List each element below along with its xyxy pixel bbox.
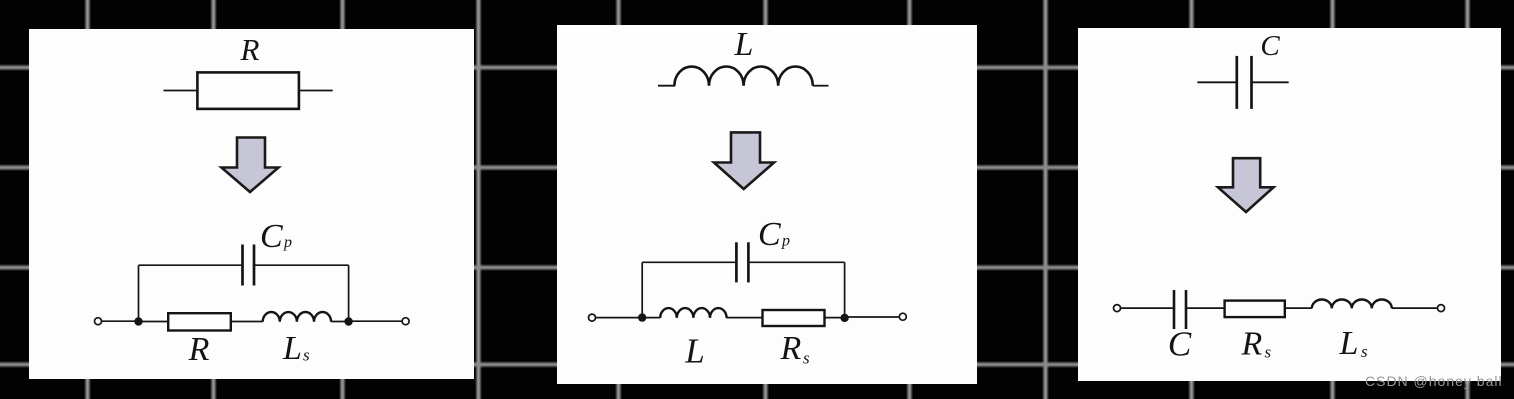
panel 2 : inductor parasitic model (557, 25, 977, 384)
wire inductor to resistor (726, 317, 762, 319)
svg-text:p: p (781, 233, 790, 250)
node: right terminal (open circle) (1438, 305, 1445, 312)
label L (top symbol value) (734, 26, 754, 63)
panel 1 : resistor parasitic model (29, 29, 474, 379)
wire inductor to node B (331, 321, 349, 323)
resistor Rs (series) (1225, 301, 1285, 318)
capacitor Cp right plate (747, 242, 750, 282)
node: right terminal (open circle) (899, 313, 906, 320)
label Rs (780, 330, 811, 368)
svg-text:s: s (803, 349, 810, 368)
wire node B to right terminal (349, 320, 402, 322)
wire vertical left branch up (138, 265, 140, 321)
wire resistor to inductor (1285, 307, 1312, 309)
capacitor C left plate (1235, 56, 1238, 109)
label R (series) (188, 331, 210, 368)
svg-text:C: C (1260, 30, 1280, 62)
wire from left terminal to node A (102, 320, 139, 322)
wire top branch left to capacitor (139, 264, 243, 266)
node: left terminal (open circle) (1114, 305, 1121, 312)
wire top branch capacitor to right (748, 261, 844, 263)
arrow (transforms-to) (1218, 158, 1274, 212)
wire top branch capacitor to right (254, 264, 349, 266)
label Cp (758, 216, 790, 253)
resistor Rs (series) (763, 310, 825, 326)
inductor Ls (series) (263, 312, 331, 322)
capacitor C left plate (series) (1173, 290, 1176, 329)
svg-text:R: R (188, 331, 210, 368)
arrow (transforms-to) (222, 138, 279, 193)
wire left lead of R (164, 90, 198, 92)
wire inductor to right terminal (1392, 307, 1438, 309)
svg-text:R: R (1241, 326, 1263, 363)
wire node B to right terminal (845, 316, 899, 318)
wire vertical right branch up (844, 262, 846, 318)
wire node A to inductor (642, 317, 660, 319)
wire top branch left to capacitor (642, 261, 736, 263)
svg-text:L: L (1339, 325, 1359, 362)
svg-text:L: L (684, 332, 704, 371)
capacitor Cp left plate (735, 242, 738, 282)
capacitor C right plate (1250, 56, 1253, 109)
wire right lead of L (813, 85, 829, 87)
watermark CSDN @honey ball (1365, 373, 1514, 389)
wire capacitor to resistor (1186, 307, 1225, 309)
node: right terminal (open circle) (402, 318, 409, 325)
wire right lead of R (299, 90, 333, 92)
node: left terminal (open circle) (95, 318, 102, 325)
label Rs (1241, 326, 1272, 363)
svg-text:s: s (303, 346, 310, 365)
wire node A to resistor (139, 321, 169, 323)
node B (right junction dot) (840, 314, 848, 322)
background grid vertical lines (84, 0, 91, 399)
wire right lead of C (1252, 81, 1289, 83)
wire left lead of L (658, 85, 675, 87)
wire resistor to node B (825, 317, 845, 319)
wire from left terminal to node A (596, 317, 643, 319)
label Ls (282, 330, 310, 367)
label Cp (260, 218, 292, 255)
node A (left junction dot) (134, 317, 142, 325)
node B (right junction dot) (344, 317, 352, 325)
wire vertical left branch up (641, 262, 643, 317)
svg-text:L: L (734, 26, 754, 63)
svg-text:R: R (780, 330, 802, 367)
capacitor Cp left plate (241, 245, 244, 286)
label R (top symbol value) (240, 32, 260, 67)
node A (left junction dot) (638, 313, 646, 321)
node: left terminal (open circle) (589, 314, 596, 321)
inductor Ls (series) (1312, 300, 1392, 309)
svg-text:p: p (283, 234, 292, 251)
label C (series) (1168, 325, 1192, 364)
svg-text:C: C (1168, 325, 1192, 364)
label Ls (1339, 325, 1369, 362)
arrow (transforms-to) (714, 132, 774, 189)
svg-text:C: C (758, 216, 781, 253)
inductor L (ideal symbol) (674, 67, 812, 86)
capacitor Cp right plate (253, 245, 256, 286)
panel 3 : capacitor parasitic model (1078, 28, 1501, 381)
wire resistor to inductor (231, 321, 263, 323)
resistor R (ideal symbol body) (197, 72, 299, 109)
wire vertical right branch up (348, 265, 350, 321)
inductor L (series in model) (660, 308, 726, 318)
resistor R (series body in model) (168, 313, 231, 330)
svg-text:s: s (1265, 343, 1272, 362)
capacitor C right plate (series) (1185, 290, 1188, 329)
background grid horizontal lines (0, 64, 1514, 71)
svg-text:R: R (240, 32, 260, 67)
wire from left terminal to capacitor (1121, 307, 1175, 309)
label L (series) (684, 332, 704, 371)
svg-text:s: s (1361, 342, 1368, 361)
label C (top symbol value) (1260, 30, 1280, 62)
svg-text:L: L (282, 330, 302, 367)
wire left lead of C (1197, 81, 1236, 83)
svg-text:C: C (260, 218, 283, 255)
